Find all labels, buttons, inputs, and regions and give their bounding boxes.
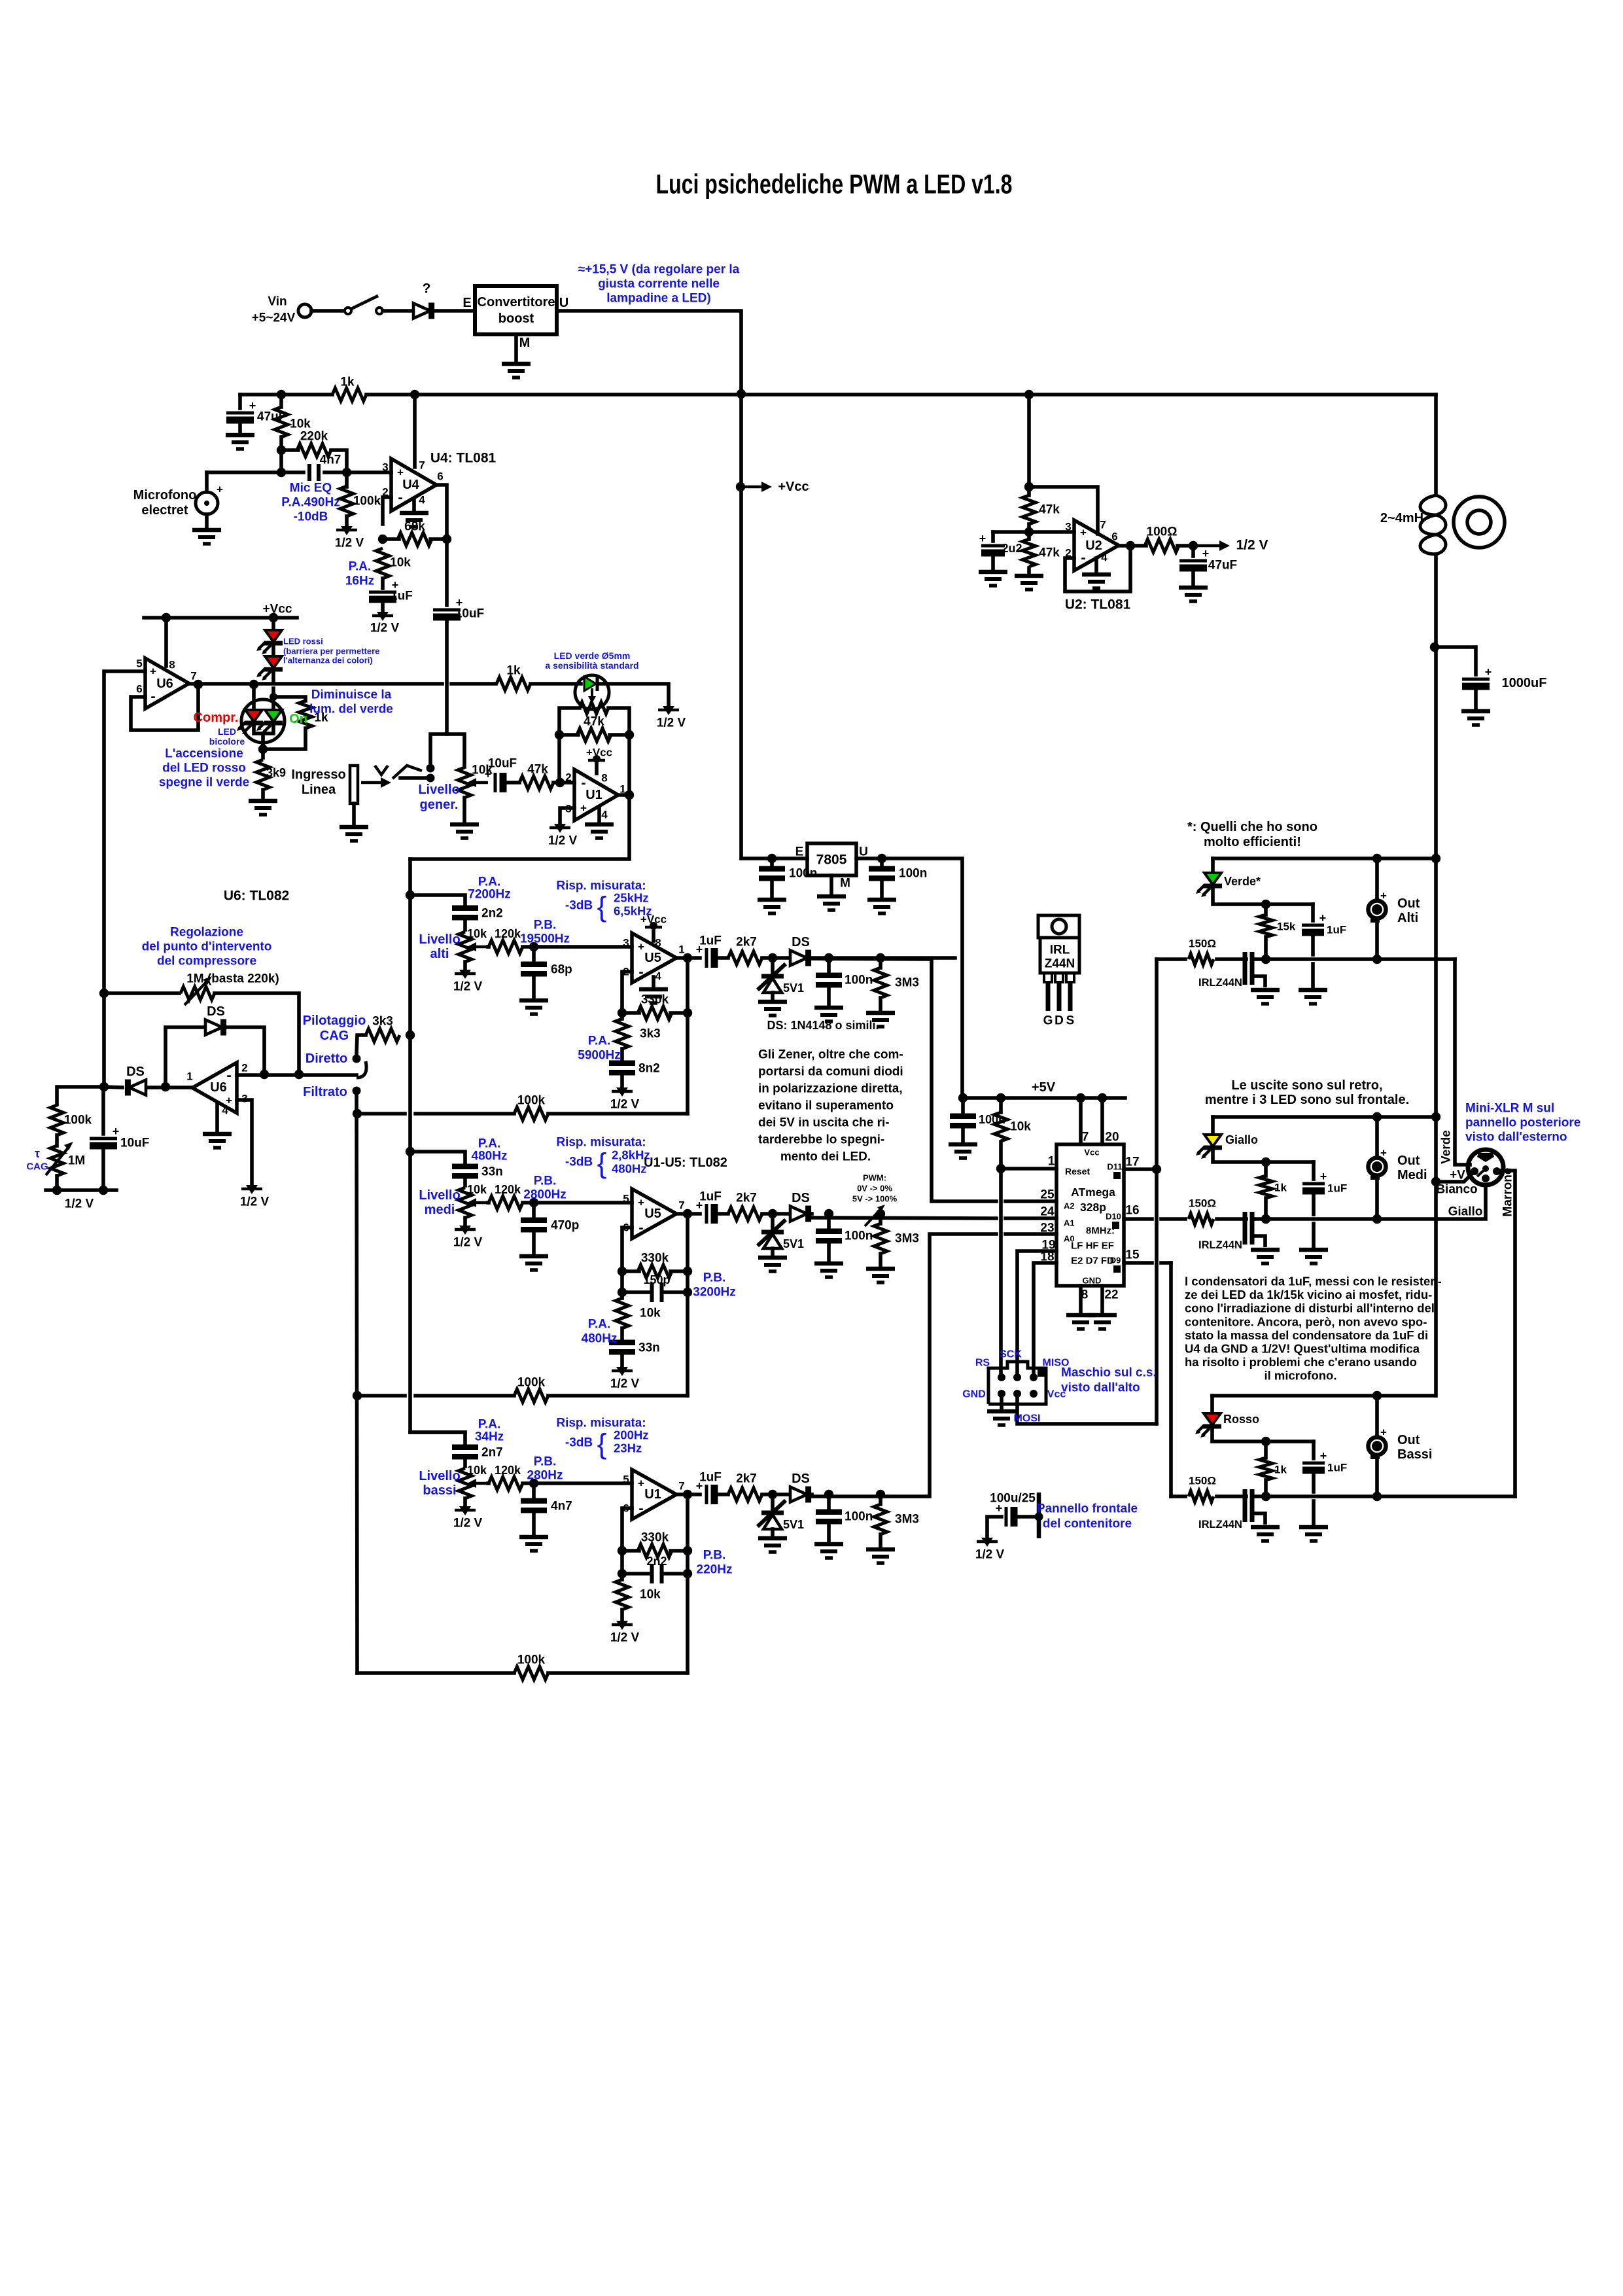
- wire jack medi top: [1375, 1117, 1379, 1157]
- svg-text:molto efficienti!: molto efficienti!: [1204, 835, 1301, 849]
- svg-text:7: 7: [1082, 1131, 1089, 1144]
- svg-text:2k7: 2k7: [736, 936, 757, 949]
- svg-text:200Hz: 200Hz: [614, 1428, 648, 1442]
- label Out (medi): [1397, 1154, 1420, 1168]
- node D11-MOSI: [1152, 1165, 1161, 1174]
- svg-text:visto dall'alto: visto dall'alto: [1061, 1381, 1140, 1395]
- svg-text:-: -: [1081, 550, 1085, 566]
- svg-text:On: On: [289, 712, 307, 726]
- wire bassi 3M3 drop: [879, 1494, 882, 1504]
- label boost: [498, 311, 534, 326]
- svg-text:{: {: [597, 1148, 607, 1180]
- wire 10k to 1uF: [381, 578, 385, 588]
- note LED (bicolore): [218, 726, 236, 737]
- boost converter module: [475, 286, 557, 334]
- node jack sw 1: [427, 764, 435, 773]
- svg-text:1M (basta 220k): 1M (basta 220k): [186, 972, 279, 986]
- wire diode to boost E: [432, 309, 475, 313]
- ground 100n out: [867, 900, 896, 913]
- svg-text:7: 7: [678, 1480, 684, 1492]
- pin3 U4: [382, 461, 388, 474]
- svg-text:480Hz: 480Hz: [472, 1150, 508, 1163]
- wire 330k right lead (bassi): [671, 1549, 688, 1553]
- svg-text:alti: alti: [430, 947, 449, 961]
- note MOSI: [1014, 1413, 1041, 1424]
- note cap paragraph 8: [1265, 1369, 1337, 1383]
- label 100n (+5V): [979, 1113, 1005, 1126]
- node chain-1k branch: [270, 693, 277, 701]
- svg-text:1000uF: 1000uF: [1502, 676, 1547, 690]
- svg-text:1/2 V: 1/2 V: [453, 1236, 483, 1250]
- label 330k (alti): [641, 993, 669, 1007]
- wire line input arrow: [361, 777, 391, 788]
- note -3dB (alti): [565, 899, 593, 913]
- wire 100n in gnd: [770, 881, 774, 897]
- svg-text:P.A.490Hz: P.A.490Hz: [281, 496, 340, 510]
- svg-text:+: +: [1380, 890, 1387, 902]
- label 150ohm alti: [1189, 938, 1216, 950]
- ISP header (Maschio): [988, 1362, 1046, 1404]
- note +15.5V line1: [578, 263, 740, 277]
- svg-text:Compr.: Compr.: [194, 711, 239, 725]
- note P.B. (alti): [534, 919, 557, 932]
- label 10k (alti pot): [467, 927, 487, 940]
- wire A1 row b: [1005, 1216, 1056, 1220]
- wire 1000uF gnd: [1474, 690, 1478, 709]
- wire LED chain top: [271, 618, 275, 629]
- wire D9 riser: [1169, 1263, 1173, 1496]
- note Risp (alti): [556, 879, 646, 893]
- svg-text:U6: U6: [156, 677, 173, 691]
- wiper arrow (medi): [467, 1198, 488, 1207]
- wiper arrow (alti): [467, 942, 488, 951]
- wire U2 supply drop: [1027, 395, 1031, 487]
- node mic-bias: [277, 468, 286, 477]
- label Vin: [268, 295, 287, 309]
- node medi zener: [768, 1209, 777, 1218]
- wire medi leg mid: [620, 1328, 624, 1339]
- wire alti PB cap gnd: [532, 978, 536, 998]
- pin22 ATmega: [1104, 1288, 1118, 1302]
- label 1uF (medi): [699, 1190, 722, 1204]
- wire alti pot bottom: [463, 962, 467, 969]
- wire 100n out gnd: [880, 881, 884, 897]
- svg-text:100k: 100k: [64, 1114, 92, 1127]
- microphone electret: [196, 492, 218, 514]
- node U1a out: [625, 790, 634, 800]
- svg-text:2n7: 2n7: [481, 1446, 503, 1460]
- wire U1a pin4 stub: [597, 807, 601, 822]
- resistor 1k (medi): [1259, 1176, 1272, 1198]
- brace (alti): [597, 891, 607, 923]
- svg-text:{: {: [597, 891, 607, 923]
- note P.A. (medi): [478, 1137, 501, 1151]
- svg-text:Linea: Linea: [302, 783, 336, 797]
- svg-text:Out: Out: [1397, 1154, 1420, 1168]
- svg-text:4: 4: [419, 494, 425, 506]
- wire medi row to A1: [812, 1218, 996, 1218]
- svg-text:25: 25: [1040, 1188, 1055, 1202]
- wire 10k to 220k node: [279, 437, 283, 472]
- note 2800Hz: [523, 1188, 567, 1202]
- wire 10uF out down: [445, 622, 449, 734]
- wire 15k to gate row: [1264, 937, 1268, 959]
- label 1M (CAG): [68, 1154, 85, 1168]
- node medi out: [683, 1209, 692, 1218]
- svg-text:-3dB: -3dB: [565, 1436, 593, 1450]
- capacitor 1uF (medi): [1302, 1170, 1327, 1191]
- ground ISP header: [987, 1411, 1016, 1425]
- wire 1uF medi drop: [1312, 1162, 1316, 1179]
- node medi fb right: [683, 1267, 692, 1276]
- svg-text:100n: 100n: [845, 974, 873, 987]
- node bassi fb2 right: [683, 1569, 692, 1578]
- wire pin19 SCK: [1017, 1251, 1056, 1377]
- svg-text:7: 7: [419, 459, 425, 472]
- label IRLZ44N medi: [1198, 1239, 1242, 1251]
- op-amp U1b (bassi): [632, 1470, 676, 1519]
- resistor 68k (U4 fb): [398, 533, 432, 546]
- node U1 pin2: [555, 778, 565, 787]
- svg-text:DS: DS: [792, 935, 810, 949]
- ground 3M3 (medi): [866, 1269, 895, 1282]
- svg-text:15k: 15k: [1277, 921, 1296, 933]
- capacitor 8n2 (alti leg): [609, 1063, 635, 1073]
- label 2k7 (medi): [736, 1192, 757, 1205]
- node alti drain: [1261, 955, 1270, 964]
- svg-text:-10dB: -10dB: [294, 510, 328, 524]
- label 1k medi: [1274, 1182, 1287, 1194]
- capacitor 4n7 (bassi PB): [521, 1501, 547, 1511]
- capacitor 10uF (gener): [485, 768, 503, 792]
- svg-text:U1: U1: [644, 1487, 661, 1502]
- svg-text:electret: electret: [141, 503, 188, 518]
- label DS (medi): [792, 1191, 810, 1205]
- capacitor 1uF (bassi): [1302, 1449, 1327, 1470]
- note PB 3200 b: [693, 1286, 736, 1299]
- wire bassi fb2 wires: [622, 1572, 648, 1576]
- svg-text:+: +: [113, 1125, 120, 1138]
- wire 1uF bassi gnd: [1312, 1474, 1316, 1492]
- wire U1a out: [618, 793, 630, 797]
- +Vcc flag (U1a): [588, 755, 605, 763]
- svg-text:U4: U4: [402, 478, 419, 492]
- wire pin16 D10 b: [1161, 1217, 1185, 1221]
- svg-text:7200Hz: 7200Hz: [468, 888, 511, 902]
- resistor 330k (alti): [638, 1006, 672, 1019]
- note Diminuisce 2: [309, 703, 393, 716]
- label A2: [1064, 1201, 1075, 1211]
- svg-text:Z44N: Z44N: [1045, 957, 1075, 971]
- label 10k (bassi pot): [467, 1464, 487, 1477]
- wire U2 pin7 route: [1029, 487, 1098, 534]
- diode DS (alti): [790, 950, 809, 966]
- svg-text:3M3: 3M3: [895, 1513, 919, 1527]
- pin15 ATmega: [1125, 1248, 1140, 1262]
- svg-text:1uF: 1uF: [391, 590, 413, 603]
- svg-text:10k: 10k: [640, 1588, 661, 1602]
- wire 2u2 drop: [991, 532, 995, 541]
- label 120k (alti): [495, 927, 521, 940]
- wire alti zener drop: [771, 958, 775, 972]
- svg-text:24: 24: [1040, 1205, 1055, 1219]
- svg-text:1: 1: [678, 944, 684, 956]
- label +Vcc (arrow): [778, 480, 809, 494]
- svg-text:IRLZ44N: IRLZ44N: [1198, 977, 1242, 989]
- wire 2u2 gnd: [991, 557, 995, 569]
- pin E boost: [462, 296, 471, 310]
- label 470p: [551, 1219, 579, 1233]
- svg-text:5V1: 5V1: [783, 1518, 804, 1531]
- wire bicolor cathodes join: [254, 722, 273, 733]
- wire pot bottom: [462, 798, 466, 822]
- node bus alti: [406, 891, 415, 900]
- ground line jack: [340, 827, 368, 841]
- svg-text:P.A.: P.A.: [349, 560, 372, 574]
- label 150ohm medi: [1189, 1197, 1216, 1210]
- svg-text:1/2 V: 1/2 V: [65, 1197, 94, 1211]
- wire jack bassi bottom: [1375, 1457, 1379, 1496]
- wire bassi gate lead: [1217, 1494, 1246, 1498]
- pin7 U6a: [190, 670, 196, 682]
- wire U6b pin3: [237, 1100, 252, 1184]
- note cap paragraph 3: [1185, 1301, 1435, 1315]
- wire 330k left lead (bassi): [622, 1549, 639, 1553]
- pin18 ATmega: [1040, 1250, 1054, 1264]
- label +5~24V: [252, 311, 296, 325]
- ground alti PB cap: [519, 1000, 548, 1014]
- node +5V a: [958, 1093, 968, 1103]
- wire 1M row right: [215, 993, 299, 1074]
- wire U1a pin8: [595, 760, 599, 773]
- wire alti 3M3 drop: [879, 958, 882, 968]
- resistor 2k7 (bassi): [728, 1488, 762, 1501]
- half-supply flag (U1a): [550, 824, 570, 833]
- svg-text:1uF: 1uF: [1327, 1462, 1347, 1474]
- svg-text:8: 8: [1081, 1288, 1089, 1302]
- wire medi 3M3 drop: [879, 1214, 882, 1224]
- label DS: 1N4148: [767, 1019, 879, 1032]
- label 3M3 (alti): [895, 976, 919, 990]
- svg-text:2: 2: [241, 1062, 247, 1074]
- svg-text:+: +: [580, 802, 587, 815]
- wire 220k right corner: [331, 450, 347, 472]
- terminal Vin: [298, 304, 311, 317]
- wire 100k top lead: [345, 472, 349, 487]
- diode D?: [413, 303, 432, 319]
- svg-text:P.A.: P.A.: [588, 1318, 611, 1332]
- label Vcc (ATmega): [1084, 1148, 1099, 1157]
- svg-text:-: -: [638, 1220, 643, 1236]
- node jack sw 2: [427, 774, 435, 783]
- svg-text:100n: 100n: [899, 867, 927, 881]
- pin17 ATmega: [1125, 1156, 1139, 1169]
- label Alti: [1397, 911, 1418, 925]
- label U1-U5: TL082: [644, 1156, 727, 1170]
- svg-text:+: +: [996, 1502, 1003, 1515]
- note -3dB (medi): [565, 1156, 593, 1169]
- wire U1a out to bus: [410, 795, 629, 859]
- wire alti 3M3 gnd: [879, 998, 882, 1010]
- svg-text:47k: 47k: [527, 763, 548, 777]
- svg-text:bassi: bassi: [423, 1483, 456, 1498]
- svg-text:stato la massa del condensator: stato la massa del condensatore da 1uF d…: [1185, 1328, 1428, 1342]
- wire pin18 MISO: [1034, 1263, 1056, 1377]
- svg-text:2n2: 2n2: [646, 1555, 667, 1568]
- svg-text:U1: U1: [585, 788, 602, 802]
- note Diretto: [305, 1051, 347, 1066]
- node alti 100n: [824, 953, 833, 963]
- wire alti drain row: [1266, 957, 1455, 961]
- label 100k (medi): [517, 1376, 546, 1390]
- resistor 3M3 (alti): [874, 968, 887, 998]
- wire +V down to 7805: [741, 394, 807, 858]
- wire 1uF medi gnd b: [1312, 1224, 1316, 1247]
- svg-text:+Vcc: +Vcc: [778, 480, 809, 494]
- resistor 3k3 (alti leg): [616, 1019, 629, 1049]
- pin+ medi: [623, 1193, 629, 1205]
- wire bassi leg bottom: [620, 1610, 624, 1620]
- wire medi leg top: [620, 1292, 624, 1298]
- svg-text:Livello: Livello: [419, 932, 460, 947]
- resistor 47k (upper): [1022, 495, 1036, 524]
- note uscite1: [1231, 1078, 1382, 1093]
- label 47k (trim): [584, 715, 604, 729]
- wire bassi input branch: [410, 1432, 465, 1443]
- capacitor 100n (alti): [816, 976, 842, 985]
- svg-text:47k: 47k: [584, 715, 604, 729]
- label ? (diode): [423, 281, 431, 296]
- capacitor 33n (medi leg): [609, 1343, 635, 1352]
- label 2k7 (alti): [736, 936, 757, 949]
- wire bassi 100n drop: [827, 1494, 831, 1509]
- svg-text:7: 7: [678, 1199, 684, 1212]
- svg-text:120k: 120k: [495, 927, 521, 940]
- wire medi PB cap drop: [532, 1203, 536, 1216]
- svg-text:del punto d'intervento: del punto d'intervento: [142, 940, 272, 954]
- svg-text:+: +: [1319, 911, 1327, 925]
- node bus 3k3: [406, 1031, 415, 1040]
- note zener paragraph 2: [758, 1065, 903, 1079]
- wire 10uF comp bottom: [101, 1150, 105, 1190]
- svg-text:100Ω: 100Ω: [1147, 525, 1178, 539]
- wire medi out: [676, 1212, 688, 1216]
- svg-text:Rosso: Rosso: [1223, 1413, 1259, 1426]
- wire LED1-LED2: [271, 642, 275, 656]
- jack switch contacts: [375, 766, 422, 779]
- wire 47uF drop (U2): [1191, 546, 1195, 556]
- pin23 ATmega: [1040, 1222, 1054, 1235]
- wire bassi row a: [688, 1492, 700, 1496]
- wire jack alti top: [1375, 858, 1379, 900]
- node rail2-LED chain: [269, 613, 278, 622]
- wire U6b pin4 stub: [215, 1103, 219, 1132]
- pin2 U1a: [565, 771, 571, 784]
- svg-text:-: -: [226, 1067, 231, 1084]
- wire 3k9 to ground: [261, 790, 265, 798]
- wire alti input branch: [410, 895, 465, 904]
- svg-text:7805: 7805: [816, 853, 847, 868]
- note RS: [975, 1358, 990, 1369]
- svg-text:+: +: [249, 399, 256, 412]
- label +Vcc (U5a): [640, 913, 667, 926]
- wire alti zener gnd: [771, 993, 775, 1000]
- wire 220k left lead: [281, 448, 298, 452]
- svg-text:+: +: [638, 941, 644, 953]
- svg-text:MOSI: MOSI: [1014, 1413, 1041, 1424]
- wire 330k left lead (alti): [622, 1011, 639, 1015]
- node bassi out: [683, 1490, 692, 1499]
- wire U5a pin4: [652, 977, 655, 987]
- svg-text:E: E: [795, 845, 804, 859]
- pin1 U6b: [186, 1070, 192, 1083]
- wire DS feedback loop: [166, 1027, 264, 1087]
- switch S1: [345, 296, 383, 314]
- label 10k (medi pot): [467, 1183, 487, 1196]
- wire U2 out: [1119, 544, 1146, 548]
- label 1M basta: [186, 972, 279, 986]
- regulator 7805: [807, 843, 856, 875]
- wire 47k upper top lead: [1027, 487, 1031, 495]
- note P.A. leg (medi): [588, 1318, 611, 1332]
- node medi fb2 right: [683, 1288, 692, 1297]
- svg-text:100n: 100n: [789, 867, 817, 881]
- svg-text:dei 5V in uscita che ri-: dei 5V in uscita che ri-: [758, 1116, 890, 1130]
- note 480Hz: [582, 1332, 618, 1346]
- label 5V1 (bassi): [783, 1518, 804, 1531]
- svg-text:1uF: 1uF: [1327, 924, 1346, 936]
- wire 100k to 1M: [55, 1135, 59, 1146]
- svg-text:≈+15,5 V (da regolare per la: ≈+15,5 V (da regolare per la: [578, 263, 740, 277]
- wire 100n 5V drop: [961, 1098, 965, 1113]
- note 7200Hz: [468, 888, 511, 902]
- wire bassi fb2 right: [665, 1572, 688, 1576]
- capacitor 33n (medi in): [452, 1167, 478, 1176]
- ground mic: [192, 530, 221, 544]
- label electret: [141, 503, 188, 518]
- capacitor 1uF (alti out): [696, 943, 714, 968]
- svg-text:τ: τ: [35, 1147, 40, 1160]
- node medi fb2 left: [618, 1288, 627, 1297]
- label 10uF (CAG): [120, 1137, 149, 1150]
- label 1uF (U4): [391, 590, 413, 603]
- wire 1uF alti gnd b: [1311, 964, 1315, 987]
- label 10k (bias): [290, 417, 311, 431]
- note Mic EQ: [290, 482, 332, 495]
- pin2 U6b: [241, 1062, 247, 1074]
- svg-text:U1-U5: TL082: U1-U5: TL082: [644, 1156, 727, 1170]
- label 4n7 (mic): [320, 453, 341, 467]
- node panel: [1035, 1513, 1043, 1521]
- diode DS (CAG): [128, 1080, 146, 1096]
- svg-text:0V -> 0%: 0V -> 0%: [857, 1184, 892, 1193]
- note zener paragraph 3: [758, 1082, 903, 1096]
- note P.A. (bassi): [478, 1418, 501, 1432]
- svg-text:P.B.: P.B.: [534, 1455, 557, 1469]
- wire bassi pin- loop: [622, 1508, 632, 1551]
- note LED verde line2: [545, 660, 638, 671]
- note 2,8kHz: [612, 1148, 650, 1162]
- resistor 100k (CAG): [50, 1105, 63, 1135]
- wire medi zener gnd: [771, 1248, 775, 1256]
- node alti fb left: [618, 1008, 627, 1017]
- capacitor 150p (medi fb): [652, 1282, 662, 1302]
- capacitor 100n (7805 in): [759, 869, 785, 879]
- IC ATmega328p box: [1056, 1144, 1124, 1286]
- svg-text:+: +: [1320, 1170, 1327, 1183]
- svg-text:Ingresso: Ingresso: [291, 768, 345, 782]
- wire bassi PB cap drop: [532, 1483, 536, 1497]
